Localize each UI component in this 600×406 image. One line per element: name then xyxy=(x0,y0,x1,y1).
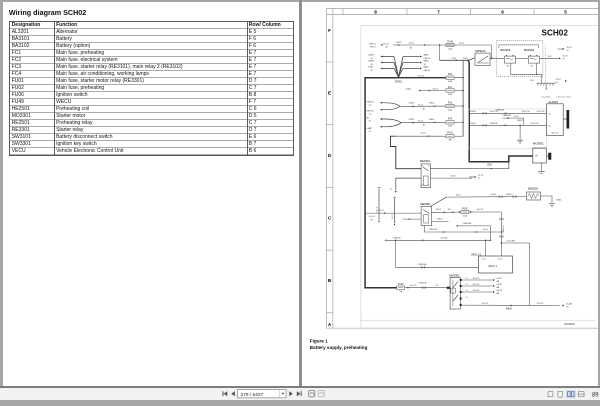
RE3301 second output xyxy=(430,177,472,179)
wire VL16-EM branch xyxy=(501,243,529,306)
continuous page icon xyxy=(558,392,563,397)
svg-text:BA3101: BA3101 xyxy=(500,47,510,51)
svg-text:1.5: 1.5 xyxy=(368,104,372,106)
wire FU02 to VECU drop xyxy=(468,211,501,213)
svg-text:VL16-EM: VL16-EM xyxy=(506,240,515,242)
motor ground xyxy=(540,163,542,171)
off-page refs right of batteries xyxy=(539,57,558,59)
svg-text:70: 70 xyxy=(566,49,569,51)
svg-text:KE-07: KE-07 xyxy=(496,277,502,279)
svg-text:M: M xyxy=(535,153,537,157)
svg-text:10-2: 10-2 xyxy=(547,55,552,57)
ground from B- wire xyxy=(519,124,520,125)
svg-text:10A: 10A xyxy=(448,47,452,50)
svg-text:40A: 40A xyxy=(448,92,452,95)
svg-text:70: 70 xyxy=(566,306,569,308)
fuse FC2 xyxy=(446,76,454,79)
RE2501 right pin stub xyxy=(431,220,448,222)
svg-text:MAIN: MAIN xyxy=(423,65,429,68)
svg-text:6B: 6B xyxy=(530,65,533,67)
first page button xyxy=(224,391,228,396)
frame border xyxy=(326,8,598,327)
svg-text:16-0.75: 16-0.75 xyxy=(476,208,484,210)
svg-text:B-: B- xyxy=(549,125,551,127)
svg-text:31-4.0-16: 31-4.0-16 xyxy=(521,111,529,113)
svg-text:D: D xyxy=(327,153,331,158)
svg-text:AB: AB xyxy=(496,285,499,288)
svg-text:CN84-0B: CN84-0B xyxy=(428,229,437,231)
off page stub with label xyxy=(378,188,380,220)
svg-text:7: 7 xyxy=(437,9,440,14)
svg-text:B: B xyxy=(327,278,331,283)
svg-text:16-0.5: 16-0.5 xyxy=(513,115,518,117)
engine region light box xyxy=(468,109,546,149)
svg-text:60A: 60A xyxy=(448,108,452,111)
svg-text:KE-02: KE-02 xyxy=(496,283,502,285)
svg-text:31-2.5: 31-2.5 xyxy=(458,42,465,44)
svg-text:8A: 8A xyxy=(448,138,451,141)
negative cable to chassis xyxy=(536,74,541,83)
RE2501 bottom return xyxy=(424,225,501,232)
svg-text:31-0.08: 31-0.08 xyxy=(440,237,448,239)
wire FU01 to RE3301 corner xyxy=(390,136,421,169)
svg-text:CN172: CN172 xyxy=(517,119,524,121)
svg-text:FC4: FC4 xyxy=(447,118,452,120)
wire row to VL-11 xyxy=(384,239,386,241)
svg-text:31-70: 31-70 xyxy=(478,174,484,176)
svg-text:SP001: SP001 xyxy=(394,80,402,83)
svg-text:CN8-1: CN8-1 xyxy=(405,88,412,90)
fuse FU49 xyxy=(446,43,454,46)
svg-text:E: E xyxy=(328,90,331,95)
svg-text:38: 38 xyxy=(370,219,373,221)
svg-text:5A: 5A xyxy=(399,290,402,293)
svg-text:30-16: 30-16 xyxy=(450,175,456,177)
fuse FU06 xyxy=(396,286,404,289)
svg-text:31-70: 31-70 xyxy=(555,78,561,80)
svg-text:30: 30 xyxy=(465,277,467,279)
wire bus to SW3101 xyxy=(438,45,440,60)
content border xyxy=(360,25,597,328)
svg-text:16-0.75: 16-0.75 xyxy=(472,277,480,279)
svg-text:FC1: FC1 xyxy=(447,86,452,88)
svg-text:CN4-8: CN4-8 xyxy=(395,41,402,43)
svg-text:VL-30: VL-30 xyxy=(497,258,502,260)
svg-text:30: 30 xyxy=(370,63,372,65)
svg-text:ADM2: ADM2 xyxy=(368,59,374,62)
svg-text:10-70: 10-70 xyxy=(566,46,572,48)
svg-text:C: C xyxy=(327,215,331,220)
next page button xyxy=(289,391,293,396)
next view icon (disabled) xyxy=(318,391,324,397)
svg-text:87: 87 xyxy=(427,165,429,167)
svg-text:FC3: FC3 xyxy=(447,102,452,104)
svg-text:85: 85 xyxy=(427,184,429,186)
svg-text:2B: 2B xyxy=(422,108,425,110)
svg-text:86: 86 xyxy=(421,184,423,186)
svg-text:MO3301: MO3301 xyxy=(533,141,544,145)
wire EA26 ground run xyxy=(461,304,559,306)
svg-text:6B: 6B xyxy=(506,65,509,67)
svg-text:16-0.5: 16-0.5 xyxy=(482,229,489,231)
svg-text:30: 30 xyxy=(370,57,372,59)
wire CN84-NA from off page xyxy=(456,224,458,226)
svg-text:5: 5 xyxy=(564,9,567,14)
svg-text:WECU: WECU xyxy=(369,43,376,45)
sense jumper wire xyxy=(502,117,523,119)
svg-text:CN84-08: CN84-08 xyxy=(418,282,427,284)
wire alternator B- xyxy=(469,124,547,126)
SW3301 output wires xyxy=(461,279,492,281)
wire BA3101 to BA3102 xyxy=(515,57,528,59)
svg-text:CNB-12: CNB-12 xyxy=(505,193,513,195)
wire to FC3 xyxy=(400,105,446,107)
motor pinion bar xyxy=(548,152,551,159)
fuse FU02 xyxy=(460,210,468,213)
svg-text:16-2.5: 16-2.5 xyxy=(418,104,423,106)
svg-text:16-1.5: 16-1.5 xyxy=(420,132,427,134)
wire alternator B+ xyxy=(469,112,547,114)
wire x395 vertical to VECU left pin xyxy=(395,240,478,267)
svg-text:SW3301: SW3301 xyxy=(449,273,460,277)
svg-text:SCH02: SCH02 xyxy=(541,28,568,37)
svg-text:CN9-1: CN9-1 xyxy=(490,193,497,195)
solenoid wire from RE3301 xyxy=(430,167,509,169)
wire to FU01 xyxy=(395,135,445,137)
svg-text:16-0.75: 16-0.75 xyxy=(409,284,417,286)
single page icon xyxy=(548,392,553,397)
RE3301 coil return wire xyxy=(395,178,420,190)
svg-text:16: 16 xyxy=(368,120,371,122)
svg-text:31-AB: 31-AB xyxy=(566,302,572,305)
wire to battery plus xyxy=(490,45,492,58)
svg-text:CN8-4: CN8-4 xyxy=(428,102,435,104)
fuse chain vertical bus xyxy=(462,60,464,136)
svg-text:CN8-4: CN8-4 xyxy=(428,119,435,121)
RE2501 second input xyxy=(402,218,421,220)
svg-text:CN84-08: CN84-08 xyxy=(392,237,401,239)
svg-text:CN84-0B: CN84-0B xyxy=(489,123,498,125)
svg-text:16: 16 xyxy=(368,130,371,132)
svg-text:A: A xyxy=(327,321,331,326)
svg-text:RE3102: RE3102 xyxy=(366,110,374,112)
wire to HE2501 xyxy=(446,195,526,198)
svg-text:CAB 16: CAB 16 xyxy=(423,56,430,59)
svg-text:70: 70 xyxy=(555,81,558,83)
svg-text:AB: AB xyxy=(496,291,499,294)
svg-text:2B: 2B xyxy=(409,47,412,49)
svg-text:15: 15 xyxy=(465,283,467,285)
dashed enclosure batteries xyxy=(496,40,542,76)
page number input xyxy=(238,390,286,398)
last page button xyxy=(297,391,301,396)
svg-text:Battery supply, preheating: Battery supply, preheating xyxy=(309,345,367,350)
svg-text:CN84-03: CN84-03 xyxy=(502,224,504,233)
wire FU06 to SW3301 xyxy=(404,286,449,288)
svg-text:60A: 60A xyxy=(448,124,452,127)
svg-text:RE3101: RE3101 xyxy=(366,101,374,103)
wire to FC4 xyxy=(401,121,446,123)
svg-text:CN8-2: CN8-2 xyxy=(436,218,443,220)
diagonal wire to HE2501 xyxy=(430,197,446,206)
svg-text:CN8-2: CN8-2 xyxy=(435,209,440,211)
svg-text:31-4.0-16: 31-4.0-16 xyxy=(530,123,538,125)
svg-text:CAB 16: CAB 16 xyxy=(423,68,430,71)
svg-text:FC2: FC2 xyxy=(447,74,452,76)
fuse FC1 row xyxy=(418,89,420,91)
cab unit line xyxy=(498,43,538,45)
two page view icon (active, blue) xyxy=(566,390,576,398)
svg-text:PDM: PDM xyxy=(368,66,373,68)
svg-text:31-0.5: 31-0.5 xyxy=(369,216,376,218)
svg-text:16-2.5: 16-2.5 xyxy=(418,120,423,122)
svg-text:FU02: FU02 xyxy=(462,208,468,210)
svg-text:2B: 2B xyxy=(385,46,388,48)
svg-text:15: 15 xyxy=(465,289,467,291)
svg-text:Alternator: Alternator xyxy=(551,131,559,134)
svg-text:EA31: EA31 xyxy=(556,198,562,201)
svg-text:50: 50 xyxy=(465,296,467,298)
svg-text:279 / 5427: 279 / 5427 xyxy=(241,392,264,398)
svg-text:2B: 2B xyxy=(422,124,425,126)
svg-text:B+: B+ xyxy=(549,113,551,115)
svg-text:SW3: SW3 xyxy=(463,57,468,59)
svg-text:HE2501: HE2501 xyxy=(528,186,539,190)
svg-text:MAIN: MAIN xyxy=(423,59,429,62)
svg-text:VECU: VECU xyxy=(370,46,376,48)
svg-text:70: 70 xyxy=(478,177,481,179)
battery negative link xyxy=(510,63,536,74)
splice node SP001 xyxy=(397,76,399,78)
svg-text:10-70: 10-70 xyxy=(562,55,568,57)
junction node xyxy=(423,44,424,45)
svg-text:SR16-B: SR16-B xyxy=(469,122,476,124)
svg-text:16: 16 xyxy=(423,63,425,65)
svg-text:16-0.75: 16-0.75 xyxy=(472,283,480,285)
svg-text:CN8: CN8 xyxy=(451,57,456,59)
svg-text:31-0.75: 31-0.75 xyxy=(536,302,544,304)
fuse FC4 xyxy=(446,120,454,123)
svg-text:AC: AC xyxy=(366,116,369,119)
svg-text:30: 30 xyxy=(370,69,372,71)
svg-text:16: 16 xyxy=(435,284,438,286)
svg-text:8: 8 xyxy=(374,9,377,14)
chassis ground comb xyxy=(536,82,555,84)
off page stub 2 xyxy=(393,198,395,223)
prev page button xyxy=(231,391,235,396)
svg-text:16.0-16: 16.0-16 xyxy=(417,75,425,77)
svg-text:[ See Doc Std ]: [ See Doc Std ] xyxy=(556,95,571,98)
svg-text:LAMP: LAMP xyxy=(366,126,372,129)
svg-text:Figure 1: Figure 1 xyxy=(309,338,327,343)
svg-text:16-1: 16-1 xyxy=(447,209,451,211)
svg-text:1.5: 1.5 xyxy=(368,113,372,115)
wire SW3101 to BA3101 xyxy=(490,57,505,59)
svg-text:CN8-1: CN8-1 xyxy=(408,102,415,104)
svg-text:31-4.0-16: 31-4.0-16 xyxy=(489,111,497,113)
svg-text:31-4.0-16: 31-4.0-16 xyxy=(536,111,544,113)
svg-text:6: 6 xyxy=(501,9,504,14)
svg-text:FU01: FU01 xyxy=(447,132,453,134)
svg-text:RE2501: RE2501 xyxy=(420,202,431,206)
bus FC2 row xyxy=(398,76,446,78)
fuse FC3 xyxy=(446,104,454,107)
svg-text:16-2.5: 16-2.5 xyxy=(432,88,439,90)
svg-text:(C) Volvo: (C) Volvo xyxy=(541,96,551,98)
svg-text:FU06: FU06 xyxy=(397,284,403,286)
svg-text:371-2.5: 371-2.5 xyxy=(382,43,388,45)
previous view icon xyxy=(309,391,315,397)
svg-text:CN8-3: CN8-3 xyxy=(408,119,415,121)
svg-text:AB: AB xyxy=(496,279,499,282)
svg-text:EA26: EA26 xyxy=(506,307,512,310)
svg-text:30: 30 xyxy=(421,165,423,167)
alternator belt bar xyxy=(566,110,569,129)
svg-text:60A: 60A xyxy=(448,80,452,83)
thick main bus left xyxy=(365,77,398,287)
svg-text:16-1.5: 16-1.5 xyxy=(391,212,393,219)
svg-text:VECU-1: VECU-1 xyxy=(488,264,498,268)
svg-text:89: 89 xyxy=(592,393,599,399)
svg-text:H53080: H53080 xyxy=(564,322,575,326)
HE2501 ground xyxy=(540,196,552,203)
svg-text:ADM1: ADM1 xyxy=(368,53,374,56)
svg-text:31: 31 xyxy=(389,189,391,191)
svg-text:FU49: FU49 xyxy=(447,41,453,43)
svg-text:16-0.75: 16-0.75 xyxy=(472,289,480,291)
splice SP001 right wires xyxy=(398,56,403,77)
svg-text:CN84-NA: CN84-NA xyxy=(417,263,426,266)
vertical to VECU pin 2 xyxy=(500,212,502,256)
svg-text:F: F xyxy=(328,28,331,33)
svg-text:31-2.5: 31-2.5 xyxy=(408,42,415,44)
thick battery cable down to starter xyxy=(468,60,532,162)
svg-text:RE3301: RE3301 xyxy=(420,158,431,162)
svg-text:SW3101: SW3101 xyxy=(475,49,486,53)
wire RE2501 to FU02 xyxy=(431,211,460,214)
svg-text:BA3102: BA3102 xyxy=(524,47,534,51)
wire bus to RE2501 xyxy=(365,212,421,214)
svg-text:CN84-NA: CN84-NA xyxy=(462,222,471,225)
svg-text:16-1.5: 16-1.5 xyxy=(378,209,385,211)
wire SW3101 to BA3101 xyxy=(490,57,504,59)
svg-text:70: 70 xyxy=(562,58,565,60)
svg-text:31E: 31E xyxy=(530,80,534,82)
fuse FU01 xyxy=(446,134,454,137)
svg-text:31-0.75: 31-0.75 xyxy=(481,302,489,304)
svg-text:10A: 10A xyxy=(463,214,467,217)
off-page arrow from bus xyxy=(474,176,476,178)
svg-text:16-10: 16-10 xyxy=(455,194,461,196)
svg-text:KE-03: KE-03 xyxy=(496,289,502,291)
svg-text:VL-11: VL-11 xyxy=(481,258,486,260)
svg-text:CN84-05: CN84-05 xyxy=(502,115,511,117)
svg-text:MAIN: MAIN xyxy=(423,53,429,56)
boundary dashed line xyxy=(544,45,546,87)
vertical drop to row xyxy=(489,226,491,240)
fit width icon xyxy=(578,392,584,397)
svg-text:GB1: GB1 xyxy=(487,163,492,166)
svg-text:SR16-B: SR16-B xyxy=(469,110,476,112)
